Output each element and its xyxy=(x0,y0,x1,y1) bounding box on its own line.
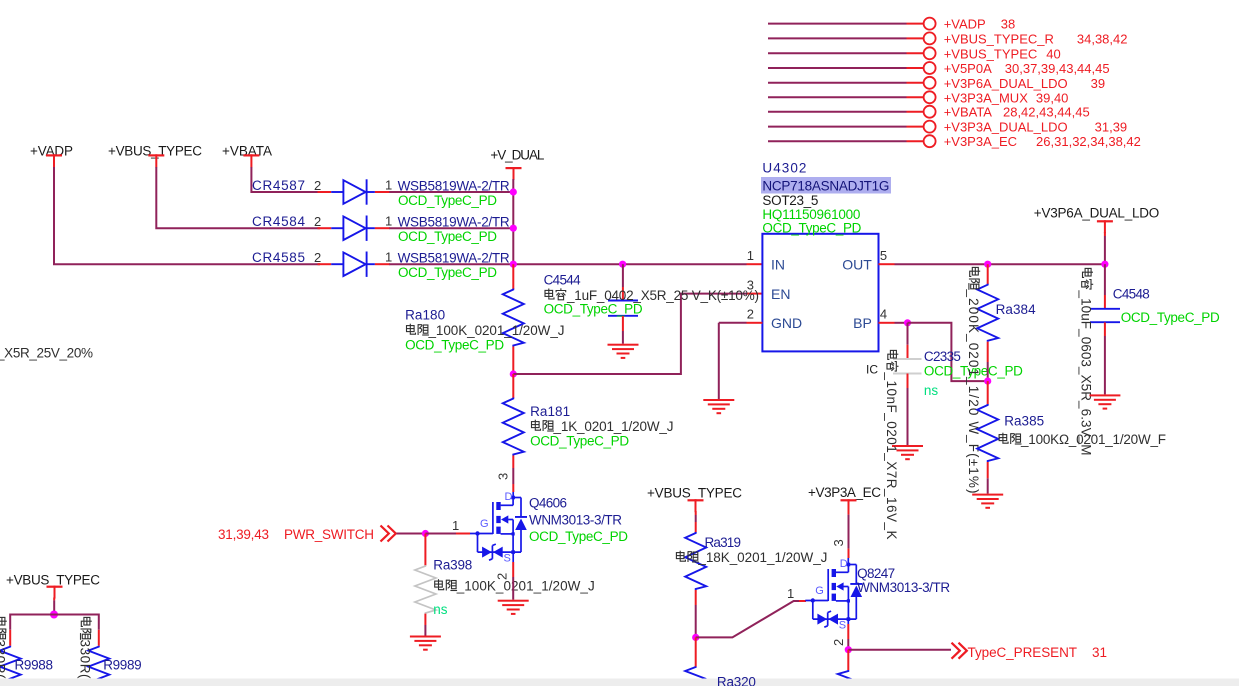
pin GND wire xyxy=(747,322,763,324)
svg-text:OCD_TypeC_PD: OCD_TypeC_PD xyxy=(398,193,497,208)
wire +V_DUAL bus vertical xyxy=(512,179,514,264)
svg-text:G: G xyxy=(480,518,489,530)
svg-text:_10nF_0201_X7R_16V_K: _10nF_0201_X7R_16V_K xyxy=(884,372,899,540)
svg-text:R9989: R9989 xyxy=(103,658,142,673)
pin wire Ra398 top xyxy=(424,534,426,566)
pin wire C4548 top xyxy=(1104,264,1106,295)
pin wire Ra385 bottom xyxy=(987,462,989,478)
svg-text:PWR_SWITCH: PWR_SWITCH xyxy=(284,527,374,542)
svg-text:5: 5 xyxy=(880,248,887,263)
svg-text:+VADP38: +VADP38 xyxy=(944,17,1016,32)
svg-text:3: 3 xyxy=(496,473,511,480)
offpage connector circle +VBUS_TYPEC_R xyxy=(924,32,936,44)
svg-text:S: S xyxy=(504,553,511,565)
offpage connector circle +VBATA xyxy=(924,106,936,118)
junction OUT to C4548 xyxy=(1101,261,1108,268)
wire +VBATA to CR4587 anode xyxy=(251,167,320,192)
junction wire row3 to C4544 xyxy=(619,261,626,268)
svg-text:+V_DUAL: +V_DUAL xyxy=(490,148,544,163)
resistor Ra398 (ns grey) xyxy=(415,565,436,614)
wire TypeC_PRESENT xyxy=(848,649,951,651)
svg-text:+V3P3A_EC26,31,32,34,38,42: +V3P3A_EC26,31,32,34,38,42 xyxy=(944,134,1141,149)
svg-text:NCP718ASNADJT1G: NCP718ASNADJT1G xyxy=(762,179,889,194)
wire to connector +V3P6A_DUAL_LDO xyxy=(768,82,907,84)
junction OUT to Ra384 xyxy=(984,261,991,268)
junction Ra319/gate xyxy=(692,634,699,641)
svg-text:+V3P6A_DUAL_LDO39: +V3P6A_DUAL_LDO39 xyxy=(944,76,1105,91)
vertical value R9988 xyxy=(0,617,8,679)
junction row1 xyxy=(510,188,517,195)
svg-text:1: 1 xyxy=(385,178,392,193)
capacitor C2335 pin bottom xyxy=(907,374,909,389)
pin wire into Ra181 xyxy=(512,374,514,398)
offpage connector circle +V3P3A_EC xyxy=(924,135,936,147)
pin BP wire xyxy=(879,322,895,324)
svg-text:+V3P3A_DUAL_LDO31,39: +V3P3A_DUAL_LDO31,39 xyxy=(944,120,1127,135)
SECTION: top-right connector list xyxy=(768,17,1141,150)
svg-text:1: 1 xyxy=(452,518,459,533)
svg-text:IN: IN xyxy=(771,257,785,273)
offpage connector circle +VBUS_TYPEC xyxy=(924,47,936,59)
svg-text:OCD_TypeC_PD: OCD_TypeC_PD xyxy=(1121,310,1220,325)
capacitor C4544 xyxy=(608,301,638,316)
svg-text:OUT: OUT xyxy=(842,257,872,273)
wire BP to divider xyxy=(908,323,988,381)
svg-text:CR4584: CR4584 xyxy=(252,214,305,229)
svg-text:Q8247: Q8247 xyxy=(857,566,895,581)
svg-text:_100K_0201_1/20W_J: _100K_0201_1/20W_J xyxy=(456,579,595,594)
svg-text:WNM3013-3/TR: WNM3013-3/TR xyxy=(857,580,950,595)
svg-text:1: 1 xyxy=(385,250,392,265)
value Ra398 xyxy=(435,579,457,590)
svg-text:_10uF_0603_X5R_6.3V_M: _10uF_0603_X5R_6.3V_M xyxy=(1079,290,1094,456)
svg-text:OCD_TypeC_PD: OCD_TypeC_PD xyxy=(762,221,861,236)
capacitor C2335 (ns grey) xyxy=(893,359,922,374)
pin wire Ra385 top xyxy=(987,381,989,404)
svg-text:_100K_0201_1/20W_J: _100K_0201_1/20W_J xyxy=(428,323,565,338)
svg-text:TypeC_PRESENT: TypeC_PRESENT xyxy=(968,645,1078,660)
wire below junction Q8247 xyxy=(847,650,849,670)
svg-text:Ra385: Ra385 xyxy=(1004,414,1044,429)
wire +VBUS_TYPEC down xyxy=(53,598,55,601)
value C4544 xyxy=(545,288,566,300)
svg-text:_1K_0201_1/20W_J: _1K_0201_1/20W_J xyxy=(553,419,674,434)
offpage arrow PWR_SWITCH xyxy=(381,526,396,542)
resistor Ra384 xyxy=(977,284,998,342)
svg-text:IC: IC xyxy=(866,363,878,377)
pin wire into Ra180 xyxy=(512,264,514,289)
pin wire C4544 bottom xyxy=(622,316,624,331)
svg-text:Ra320: Ra320 xyxy=(717,675,756,686)
wire CR4585 cathode to bus and IC IN xyxy=(375,263,390,265)
junction row2 xyxy=(510,225,517,232)
svg-text:1: 1 xyxy=(385,214,392,229)
resistor partial below Q8247 xyxy=(838,670,859,682)
svg-text:31,39,43: 31,39,43 xyxy=(218,527,269,542)
ground under C4548 xyxy=(1089,394,1120,409)
svg-text:Q4606: Q4606 xyxy=(529,496,567,511)
resistor R9989 partial xyxy=(88,646,109,683)
source wire Q4606 to ground xyxy=(512,552,514,562)
svg-text:HQ11150961000: HQ11150961000 xyxy=(762,207,860,222)
vertical value Ra384 xyxy=(966,267,981,493)
pin wire Ra398 bottom xyxy=(424,614,426,625)
svg-text:S: S xyxy=(839,620,846,632)
junction Ra180/Ra181/EN xyxy=(510,370,517,377)
svg-text:2: 2 xyxy=(495,573,510,580)
resistor Ra181 xyxy=(503,398,524,456)
svg-text:D: D xyxy=(505,491,513,503)
svg-text:OCD_TypeC_PD: OCD_TypeC_PD xyxy=(398,229,497,244)
wire +VBUS_TYPEC to Ra319 xyxy=(695,511,697,515)
pin 3 label Q8247 xyxy=(831,539,846,546)
wire to connector +V3P3A_DUAL_LDO xyxy=(768,126,907,128)
svg-text:31: 31 xyxy=(1092,645,1107,660)
wire to R9989 xyxy=(54,615,99,630)
svg-text:ns: ns xyxy=(924,383,939,398)
wire CR4584 cathode to bus xyxy=(375,227,390,229)
capacitor C4548 xyxy=(1090,309,1120,322)
ground under Q4606 xyxy=(498,600,529,615)
offpage connector circle +V3P3A_DUAL_LDO xyxy=(924,121,936,133)
resistor Ra319 xyxy=(685,532,706,590)
junction BP divider xyxy=(984,378,991,385)
resistor Ra320 partial xyxy=(685,667,706,680)
wire PWR_SWITCH to gate xyxy=(397,533,426,535)
ground under IC xyxy=(703,399,734,414)
svg-text:Ra181: Ra181 xyxy=(530,404,570,419)
svg-text:3: 3 xyxy=(747,277,754,292)
pin OUT wire xyxy=(879,263,895,265)
svg-text:+VBUS_TYPEC_R34,38,42: +VBUS_TYPEC_R34,38,42 xyxy=(944,31,1128,46)
pin wire Ra384 top xyxy=(987,264,989,284)
svg-text:WNM3013-3/TR: WNM3013-3/TR xyxy=(529,513,622,528)
svg-text:Ra319: Ra319 xyxy=(705,535,742,550)
wire EN net xyxy=(513,294,746,374)
svg-text:OCD_TypeC_PD: OCD_TypeC_PD xyxy=(530,434,629,449)
svg-text:U4302: U4302 xyxy=(762,161,806,176)
vertical value R9989 xyxy=(78,617,93,679)
wire to connector +V5P0A xyxy=(768,67,907,69)
svg-text:CR4585: CR4585 xyxy=(252,250,305,265)
junction row3 xyxy=(510,261,517,268)
svg-text:2: 2 xyxy=(314,250,321,265)
diode CR4585 xyxy=(331,252,375,277)
resistor Ra180 xyxy=(503,289,524,347)
svg-text:D: D xyxy=(840,558,848,570)
wire to connector +VBATA xyxy=(768,111,907,113)
pin wire C4544 top xyxy=(622,264,624,287)
svg-text:2: 2 xyxy=(831,639,846,646)
svg-text:2: 2 xyxy=(747,307,754,322)
svg-text:EN: EN xyxy=(771,286,790,302)
offpage connector circle +V3P3A_MUX xyxy=(924,91,936,103)
value Ra181 xyxy=(532,420,554,431)
svg-text:2: 2 xyxy=(314,178,321,193)
wire to connector +VADP xyxy=(768,23,907,25)
transistor Q8247 xyxy=(805,563,862,628)
value Ra180 xyxy=(407,324,429,335)
value Ra319 xyxy=(676,551,698,562)
svg-text:+V3P3A_MUX39,40: +V3P3A_MUX39,40 xyxy=(944,90,1069,105)
highlight part number U4302 xyxy=(761,177,891,194)
wire +VBUS_TYPEC to CR4584 anode xyxy=(156,167,320,228)
vertical value C4548 xyxy=(1079,268,1094,455)
offpage connector circle +V3P6A_DUAL_LDO xyxy=(924,77,936,89)
svg-text:OCD_TypeC_PD: OCD_TypeC_PD xyxy=(529,529,628,544)
svg-text:OCD_TypeC_PD: OCD_TypeC_PD xyxy=(398,265,497,280)
svg-text:+V3P6A_DUAL_LDO: +V3P6A_DUAL_LDO xyxy=(1034,206,1160,221)
svg-text:+VBUS_TYPEC40: +VBUS_TYPEC40 xyxy=(944,46,1061,61)
junction PWR_SWITCH/Ra398 xyxy=(422,530,429,537)
wire to R9988 xyxy=(10,615,54,630)
junction TypeC_PRESENT xyxy=(845,646,852,653)
pin 2 label Q8247 xyxy=(831,639,846,646)
pin wire Ra180 bottom xyxy=(512,347,514,375)
svg-text:+VBUS_TYPEC: +VBUS_TYPEC xyxy=(6,573,100,588)
ground under C2335 xyxy=(892,445,923,460)
vertical value C2335 xyxy=(884,350,899,539)
ground under Ra398 xyxy=(410,636,441,651)
svg-text:+V3P3A_EC: +V3P3A_EC xyxy=(808,485,881,500)
svg-text:BP: BP xyxy=(853,315,872,331)
svg-text:+VBUS_TYPEC: +VBUS_TYPEC xyxy=(647,486,742,501)
junction R9988/R9989 xyxy=(50,611,58,619)
junction BP xyxy=(904,319,911,326)
offpage connector circle +VADP xyxy=(924,18,936,30)
wire to connector +VBUS_TYPEC xyxy=(768,52,907,54)
pin 2 label Q4606 xyxy=(495,573,510,580)
ground C4544 xyxy=(608,344,639,359)
value Ra385 xyxy=(999,433,1021,444)
resistor Ra385 xyxy=(977,404,998,462)
svg-text:2: 2 xyxy=(314,214,321,229)
svg-text:C4544: C4544 xyxy=(544,273,581,288)
svg-text:1: 1 xyxy=(747,248,754,263)
svg-text:330R(: 330R( xyxy=(78,640,93,680)
wire Ra320 below junction xyxy=(695,637,697,666)
diode CR4584 xyxy=(331,216,375,241)
svg-text:Ra384: Ra384 xyxy=(996,302,1036,317)
pin wire C4548 bottom xyxy=(1104,322,1106,336)
svg-text:OCD_TypeC_PD: OCD_TypeC_PD xyxy=(405,338,504,353)
svg-text:3: 3 xyxy=(831,539,846,546)
svg-text:G: G xyxy=(815,585,824,597)
svg-text:C2335: C2335 xyxy=(924,349,961,364)
svg-text:330R(: 330R( xyxy=(0,640,8,680)
svg-text:CR4587: CR4587 xyxy=(252,178,305,193)
pin wire Ra319 bottom xyxy=(695,590,697,605)
svg-text:OCD_TypeC_PD: OCD_TypeC_PD xyxy=(544,302,643,317)
pin 3 label Q4606 xyxy=(496,473,511,480)
diode CR4587 xyxy=(331,179,375,204)
svg-text:4: 4 xyxy=(880,307,887,322)
svg-text:SOT23_5: SOT23_5 xyxy=(762,193,818,208)
op-amp U4302 body xyxy=(762,234,878,352)
wire Ra181 to Q4606 drain xyxy=(512,456,514,469)
bottom page strip xyxy=(0,679,1239,686)
wire GND down xyxy=(718,323,720,399)
pin wire Ra384 bottom xyxy=(987,342,989,362)
svg-text:GND: GND xyxy=(771,315,802,331)
offpage connector circle +V5P0A xyxy=(924,62,936,74)
svg-text:R9988: R9988 xyxy=(15,658,54,673)
wire to connector +V3P3A_EC xyxy=(768,140,907,142)
svg-text:Ra180: Ra180 xyxy=(405,308,445,323)
source wire Q8247 down xyxy=(847,619,849,624)
svg-text:_1uF_0402_X5R_25 V_K(±10%): _1uF_0402_X5R_25 V_K(±10%) xyxy=(566,288,759,303)
svg-text:+VBATA28,42,43,44,45: +VBATA28,42,43,44,45 xyxy=(944,105,1090,120)
wire +V3P3A_EC to Q8247 drain xyxy=(848,511,850,515)
svg-text:+V5P0A30,37,39,43,44,45: +V5P0A30,37,39,43,44,45 xyxy=(944,61,1110,76)
svg-text:ns: ns xyxy=(433,602,448,617)
svg-text:_200K_0201_1/20 W_F(±1%): _200K_0201_1/20 W_F(±1%) xyxy=(966,289,981,494)
wire CR4587 cathode to bus xyxy=(375,191,390,193)
resistor R9988 partial xyxy=(0,646,21,683)
svg-text:_18K_0201_1/20W_J: _18K_0201_1/20W_J xyxy=(697,550,827,565)
svg-text:Ra398: Ra398 xyxy=(433,557,472,572)
wire +VADP to CR4585 anode xyxy=(54,167,320,264)
ground under Ra385 xyxy=(972,494,1003,509)
offpage arrow TypeC_PRESENT xyxy=(952,643,967,659)
svg-text:C4548: C4548 xyxy=(1113,287,1150,302)
transistor Q4606 xyxy=(470,496,527,561)
wire to connector +V3P3A_MUX xyxy=(768,96,907,98)
svg-text:_X5R_25V_20%: _X5R_25V_20% xyxy=(0,346,93,361)
svg-text:1: 1 xyxy=(787,586,794,601)
capacitor C2335 pin top xyxy=(907,323,909,345)
wire Ra319 to Q8247 gate xyxy=(696,601,799,637)
wire +V3P6A_DUAL_LDO down to OUT net xyxy=(1104,232,1106,236)
wire to connector +VBUS_TYPEC_R xyxy=(768,37,907,39)
